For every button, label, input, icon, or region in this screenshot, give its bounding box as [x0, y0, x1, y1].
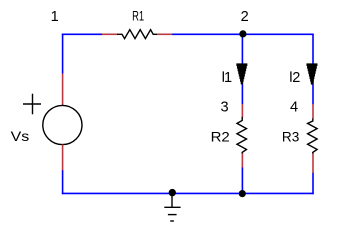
wire: bottom rail horizontal — [62, 192, 314, 194]
svg-text:2: 2 — [292, 70, 300, 86]
wire: R3 bottom to bottom rail — [312, 173, 314, 195]
svg-text:Vs: Vs — [11, 128, 30, 144]
svg-text:1: 1 — [51, 9, 59, 25]
Vs plus sign — [23, 94, 41, 115]
svg-text:R3: R3 — [282, 129, 300, 145]
svg-text:4: 4 — [290, 99, 298, 115]
pin: R1 pin 1 (red lead) — [102, 33, 118, 35]
pin: Vs + pin (red lead) — [62, 74, 64, 106]
pin: R3 pin 1 (red lead) — [312, 104, 314, 119]
svg-text:3: 3 — [221, 99, 229, 115]
voltage source Vs (circle) — [43, 105, 82, 144]
wire: Vs bottom to bottom rail — [62, 170, 64, 194]
junction dot: node 2 — [239, 30, 246, 37]
node label 4 — [290, 99, 298, 115]
junction dot: ground node — [169, 189, 176, 196]
pin: R2 pin 2 (red lead) — [241, 154, 243, 168]
ground symbol — [164, 193, 180, 221]
resistor R1 body (zigzag) — [117, 30, 157, 39]
label Vs — [11, 128, 30, 144]
svg-text:1: 1 — [224, 70, 232, 86]
wire: top right horizontal (node 2 to right branch) — [242, 33, 314, 35]
current arrow I2 — [306, 63, 317, 85]
resistor R2 body (zigzag) — [237, 117, 247, 154]
svg-text:2: 2 — [241, 9, 249, 25]
wire: branch 1 vertical (node 2 down to R2 pin) — [241, 34, 243, 104]
wire: top-left horizontal (node 1 to R1) — [62, 33, 103, 35]
label R3 — [282, 129, 300, 145]
label R1 (value/ref) — [132, 8, 144, 24]
node label 2 — [241, 9, 249, 25]
node label 1 — [51, 9, 59, 25]
resistor R3 body (zigzag) — [308, 119, 318, 155]
wire: R2 bottom to bottom rail — [241, 167, 243, 193]
label I1 — [223, 70, 232, 86]
pin: R3 pin 2 (red lead) — [312, 154, 314, 174]
pin: Vs - pin (red lead) — [62, 144, 64, 170]
wire: right vertical (down to R3 pin) — [312, 34, 314, 105]
pin: R2 pin 1 (red lead) — [241, 104, 243, 118]
label I2 — [291, 70, 300, 86]
svg-text:R2: R2 — [211, 129, 230, 145]
current arrow I1 — [236, 63, 247, 85]
pin: R1 pin 2 (red lead) — [157, 33, 173, 35]
label R2 — [211, 129, 230, 145]
node label 3 — [221, 99, 229, 115]
svg-text:R1: R1 — [132, 8, 144, 24]
junction dot: R2 / bottom rail — [239, 190, 246, 197]
wire: top middle horizontal (R1 to node 2) — [172, 33, 243, 35]
wire: left vertical (node 1 down to Vs) — [62, 34, 64, 74]
